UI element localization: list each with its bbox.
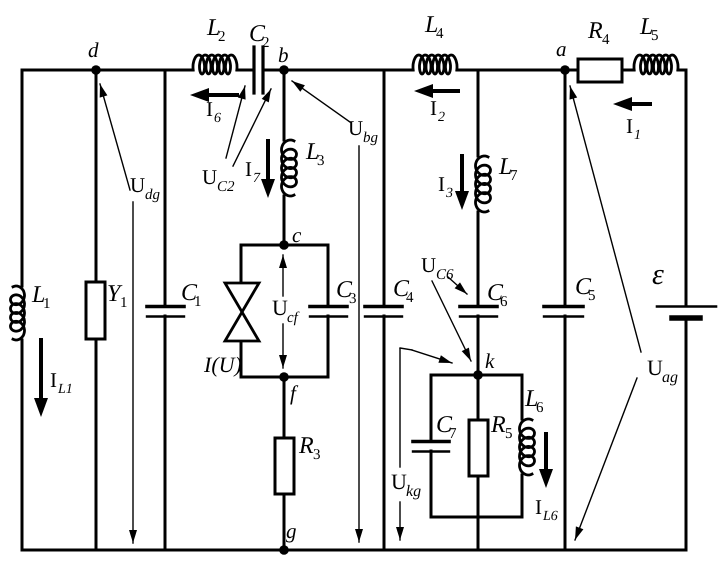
inductor L2 — [193, 55, 237, 74]
label Ucf — [272, 295, 300, 326]
svg-text:R: R — [298, 433, 314, 459]
label I2 — [430, 96, 445, 125]
svg-text:4: 4 — [436, 26, 444, 42]
node g — [279, 545, 289, 555]
capacitor C1 — [147, 307, 184, 317]
label UC6 — [421, 253, 454, 283]
svg-text:R: R — [490, 412, 506, 438]
svg-text:3: 3 — [445, 186, 453, 201]
svg-text:a: a — [556, 37, 567, 61]
svg-text:cf: cf — [287, 310, 300, 326]
wire box2 bottom to bottom wire — [477, 517, 480, 550]
svg-text:I(U): I(U) — [203, 352, 242, 377]
svg-text:1: 1 — [194, 294, 202, 310]
current arrow I2 — [414, 84, 458, 98]
inductor L3 — [282, 140, 297, 196]
label I3 — [438, 172, 453, 201]
current arrow IL6 — [539, 434, 553, 488]
battery EMF source — [657, 307, 716, 319]
svg-text:2: 2 — [438, 110, 445, 125]
label C3 — [336, 277, 357, 307]
svg-text:I: I — [206, 97, 213, 121]
label L6 — [524, 386, 544, 416]
voltage arrow UC2 right — [233, 89, 271, 166]
label C2 — [249, 21, 270, 51]
capacitor C6 — [460, 307, 497, 317]
svg-text:I: I — [626, 114, 633, 138]
current arrow I1 — [613, 97, 650, 111]
capacitor C7 — [413, 442, 449, 452]
inductor L1 — [11, 286, 25, 340]
current arrow I7 — [261, 141, 275, 198]
voltage arrow Uag down to g — [575, 378, 637, 540]
wire node b down to L3 — [283, 70, 286, 140]
wire box1 bottom edge — [241, 376, 328, 379]
inductor L7 — [476, 156, 491, 212]
svg-text:U: U — [421, 253, 436, 277]
wire branch C1 upper — [164, 70, 167, 306]
current arrow IL1 — [34, 340, 48, 417]
svg-text:7: 7 — [449, 426, 457, 442]
svg-text:1: 1 — [634, 128, 641, 143]
svg-text:4: 4 — [406, 290, 414, 306]
wire box2 left edge lower — [430, 451, 433, 517]
svg-text:bg: bg — [363, 130, 379, 146]
label Y1 — [107, 281, 128, 311]
wire box1 right edge lower — [327, 316, 330, 377]
wire: R4 to L5 — [622, 69, 634, 72]
wire: L2 to C2 left plate — [237, 69, 251, 72]
svg-text:U: U — [272, 295, 288, 320]
wire right edge lower — [685, 318, 688, 550]
label L1 — [31, 282, 51, 312]
wire box2 right edge lower — [521, 475, 524, 517]
wire branch C5 lower — [564, 316, 567, 550]
wire branch C5 upper (node a down) — [564, 70, 567, 306]
node c — [279, 240, 289, 250]
wire R5 branch upper — [477, 375, 480, 420]
voltage arrow Ucf up — [279, 255, 287, 296]
svg-text:C6: C6 — [436, 267, 454, 283]
label L3 — [305, 139, 325, 169]
svg-text:ag: ag — [662, 369, 678, 386]
svg-text:7: 7 — [253, 171, 261, 186]
wire R5 branch lower — [477, 476, 480, 517]
svg-text:R: R — [587, 18, 603, 44]
svg-text:1: 1 — [43, 296, 51, 312]
label C7 — [436, 412, 457, 442]
svg-text:I: I — [535, 495, 542, 519]
wire box1 right edge upper (C3 branch) — [327, 245, 330, 306]
svg-text:2: 2 — [218, 29, 226, 45]
svg-text:3: 3 — [313, 447, 321, 463]
voltage arrow Udg to node d — [100, 84, 130, 190]
svg-text:ε: ε — [652, 258, 664, 291]
svg-text:6: 6 — [500, 294, 508, 310]
capacitor C5 — [544, 307, 583, 317]
label R3 — [298, 433, 321, 463]
voltage arrow Uag to node a — [570, 86, 642, 352]
wire left edge upper — [21, 70, 24, 286]
svg-text:b: b — [278, 43, 289, 67]
inductor L5 — [634, 55, 678, 74]
label Uag — [647, 355, 678, 386]
wire: L4 to R4 — [457, 69, 579, 72]
wire branch C1 lower — [164, 316, 167, 550]
svg-text:I: I — [430, 96, 437, 120]
wire L7 to C6 — [477, 212, 480, 306]
label C6 — [487, 280, 508, 310]
wire node f to R3 — [283, 377, 286, 438]
label Udg — [130, 173, 161, 203]
nonlinear element I(U) — [225, 283, 259, 341]
svg-text:g: g — [286, 519, 297, 543]
capacitor C2 — [254, 47, 263, 93]
current arrow I3 — [455, 156, 469, 210]
svg-text:3: 3 — [317, 153, 325, 169]
node a — [560, 65, 570, 75]
label R4 — [587, 18, 610, 48]
wire branch C4 lower — [383, 316, 386, 550]
svg-text:dg: dg — [145, 187, 161, 203]
label L2 — [206, 15, 226, 45]
wire C6 to node k — [477, 316, 480, 375]
svg-text:kg: kg — [406, 483, 421, 500]
svg-text:3: 3 — [349, 291, 357, 307]
wire: C2 right plate to L4 — [266, 69, 413, 72]
capacitor C3 — [310, 307, 347, 317]
label UC2 — [202, 165, 235, 195]
svg-text:7: 7 — [510, 168, 518, 184]
label IL6 — [535, 495, 558, 524]
wire box1 top edge — [241, 244, 328, 247]
svg-text:I: I — [438, 172, 445, 196]
resistor R3 — [275, 438, 294, 494]
svg-text:c: c — [292, 223, 302, 247]
admittance Y1 — [86, 282, 105, 339]
node b — [279, 65, 289, 75]
voltage arrow UC6 to node k — [432, 281, 471, 361]
svg-text:L6: L6 — [542, 509, 558, 524]
svg-text:5: 5 — [505, 426, 513, 442]
wire right edge upper — [685, 70, 688, 306]
node k — [473, 370, 483, 380]
current arrow I6 — [190, 88, 237, 102]
svg-text:2: 2 — [262, 35, 270, 51]
svg-text:U: U — [348, 116, 363, 140]
voltage arrow UC6 to C6 — [448, 277, 467, 294]
label C5 — [575, 274, 596, 304]
inductor L6 — [520, 419, 535, 475]
label Ubg — [348, 116, 379, 146]
label I6 — [206, 97, 221, 126]
svg-text:I: I — [50, 368, 57, 392]
wire box2 bottom edge — [431, 516, 522, 519]
label L4 — [424, 12, 444, 42]
node f — [279, 372, 289, 382]
label Ukg — [391, 469, 421, 500]
voltage arrow Udg down to g — [129, 202, 137, 543]
svg-text:U: U — [391, 469, 407, 494]
wire box2 top edge — [431, 374, 522, 377]
svg-text:4: 4 — [602, 32, 610, 48]
resistor R5 — [469, 420, 488, 476]
voltage arrow Ukg down to g — [396, 502, 404, 540]
voltage arrow Ucf down — [279, 324, 287, 368]
wire branch k: top to L7 — [477, 70, 480, 156]
voltage arrow UC2 left — [226, 86, 246, 158]
wire top left: node d to L2 — [22, 69, 193, 72]
label R5 — [490, 412, 513, 442]
voltage arrow Ubg down to g — [355, 146, 363, 542]
voltage arrow Ukg to node k — [400, 348, 452, 363]
svg-text:k: k — [485, 349, 495, 373]
label L5 — [639, 14, 659, 44]
wire: L5 to top right corner — [678, 69, 686, 72]
svg-text:6: 6 — [214, 111, 221, 126]
capacitor C4 — [365, 307, 402, 317]
svg-text:U: U — [647, 355, 663, 380]
wire box2 left edge upper (C7 branch) — [430, 375, 433, 441]
node d — [91, 65, 101, 75]
svg-text:L1: L1 — [57, 382, 73, 397]
wire R3 to node g — [283, 494, 286, 550]
wire box1 left edge upper — [240, 245, 243, 284]
wire bottom — [22, 549, 686, 552]
svg-text:6: 6 — [536, 400, 544, 416]
svg-text:5: 5 — [588, 288, 596, 304]
label L7 — [498, 154, 518, 184]
label C4 — [393, 276, 414, 306]
label I7 — [245, 157, 261, 186]
svg-text:5: 5 — [651, 28, 659, 44]
wire box2 right edge upper — [521, 375, 524, 419]
wire branch C4 upper — [383, 70, 386, 306]
label C1 — [181, 280, 202, 310]
svg-text:I: I — [245, 157, 252, 181]
wire branch d vertical — [95, 70, 98, 550]
voltage line Ukg vertical — [399, 349, 401, 467]
wire left edge lower — [21, 340, 24, 550]
svg-text:d: d — [88, 38, 99, 62]
svg-text:1: 1 — [120, 295, 128, 311]
voltage arrow Ubg to node b — [292, 81, 350, 122]
wire L3 to node c — [283, 196, 286, 245]
resistor R4 — [578, 59, 622, 82]
label IL1 — [50, 368, 73, 397]
label I1 — [626, 114, 641, 143]
svg-text:U: U — [130, 173, 145, 197]
wire box1 left edge lower — [240, 340, 243, 377]
inductor L4 — [413, 55, 457, 74]
svg-text:C2: C2 — [217, 179, 235, 195]
svg-text:U: U — [202, 165, 217, 189]
